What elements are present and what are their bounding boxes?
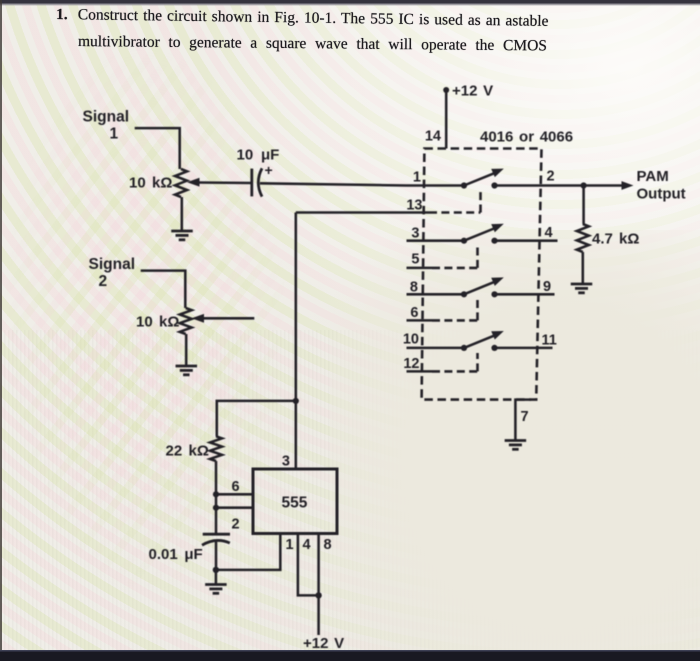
wire pin 7 stub — [515, 400, 531, 440]
wire stub to 555 pin 2 — [216, 506, 253, 509]
ground below R1 — [171, 231, 193, 240]
label Signal 2 — [89, 256, 136, 290]
ground at pin 7 — [505, 441, 527, 450]
svg-text:8: 8 — [410, 279, 418, 295]
svg-text:2: 2 — [232, 517, 240, 533]
svg-text:11: 11 — [542, 333, 557, 349]
ground below R3 — [571, 284, 593, 293]
resistor R2 10k — [180, 308, 192, 334]
wire junction down to R3 — [582, 186, 585, 225]
svg-text:22 kΩ: 22 kΩ — [166, 443, 209, 460]
arrow tap into R1 — [187, 178, 252, 187]
resistor R1 10k — [175, 169, 187, 197]
node pin 6 junction — [213, 491, 219, 497]
wire pin 9 stub out of box — [495, 293, 555, 296]
node junction riser / R4 branch — [293, 398, 299, 404]
svg-text:10: 10 — [403, 332, 419, 348]
wire 555 pin 4 down — [298, 534, 319, 596]
svg-text:Signal: Signal — [89, 256, 136, 273]
capacitor C2 curved plate — [202, 540, 230, 545]
node PAM output junction — [581, 182, 587, 188]
svg-text:4.7 kΩ: 4.7 kΩ — [592, 231, 639, 248]
resistor R3 4.7k — [577, 224, 589, 252]
node +12V (top supply) — [443, 83, 493, 100]
svg-text:0.01 μF: 0.01 μF — [149, 546, 203, 563]
svg-text:3: 3 — [411, 226, 419, 242]
wire R2 to ground — [185, 334, 188, 365]
svg-text:4: 4 — [303, 537, 311, 553]
wire junction to R4 branch — [217, 401, 296, 436]
svg-text:2: 2 — [547, 169, 555, 185]
wire pin 1 lead into box — [407, 184, 465, 187]
svg-text:10 μF: 10 μF — [237, 147, 280, 164]
wire pin 11 stub out of box — [495, 347, 553, 350]
IC U2 4016/4066 dashed outline — [422, 149, 542, 400]
dashed control net pin12 to S4 — [432, 353, 478, 371]
wire pin 4 stub out of box — [495, 239, 558, 242]
arrow tap into R2 — [192, 314, 255, 323]
analog switch S1 right contact dot — [491, 182, 497, 188]
wire node to 555 pin 1 — [216, 534, 280, 570]
svg-text:14: 14 — [425, 129, 441, 145]
analog switch S3 right contact dot — [491, 291, 497, 297]
ground below R2 — [176, 366, 198, 375]
wire pin 5 control stub — [407, 267, 433, 270]
svg-text:+12 V: +12 V — [452, 83, 493, 100]
svg-text:Output: Output — [637, 186, 686, 203]
analog switch S3 lever arm with arrowhead — [464, 277, 504, 294]
svg-text:5: 5 — [411, 252, 419, 268]
svg-text:+: + — [265, 162, 273, 178]
svg-text:4: 4 — [545, 225, 553, 241]
resistor R4 22k — [210, 436, 222, 461]
label Signal 1 — [83, 109, 130, 143]
node pins 4-8 junction — [315, 592, 321, 598]
dashed control net pin13 to S1 — [429, 190, 481, 213]
analog switch S4 right contact dot — [491, 345, 497, 351]
svg-text:PAM: PAM — [637, 168, 669, 185]
svg-text:1: 1 — [413, 170, 421, 186]
node ground junction — [213, 567, 219, 573]
wire C2 to ground node — [215, 542, 218, 570]
analog switch S4 lever arm with arrowhead — [464, 331, 504, 348]
capacitor C1 flat plate — [250, 169, 253, 197]
svg-text:1: 1 — [110, 126, 119, 143]
svg-text:9: 9 — [543, 279, 551, 295]
analog switch S4 (left contact dot) — [461, 345, 467, 351]
svg-text:2: 2 — [99, 273, 108, 290]
svg-text:13: 13 — [406, 198, 422, 214]
wire pin 13 control line — [296, 211, 429, 214]
wire R1 to ground — [181, 197, 184, 230]
analog switch S2 lever arm with arrowhead — [464, 224, 504, 241]
wire pin 6 control stub — [407, 319, 433, 322]
svg-text:1: 1 — [286, 537, 294, 553]
wire pin 3 lead into box — [407, 239, 465, 242]
svg-text:7: 7 — [521, 409, 529, 425]
svg-text:10 kΩ: 10 kΩ — [136, 314, 179, 331]
analog switch S1 lever arm with arrowhead — [464, 169, 504, 186]
ground below C2 — [205, 585, 227, 594]
svg-text:6: 6 — [232, 479, 240, 495]
wire Signal 2 input — [141, 271, 186, 308]
wire node to ground — [215, 570, 218, 584]
svg-text:12: 12 — [403, 356, 419, 372]
wire Signal 1 input — [135, 128, 180, 169]
wire R4 down to pin6 node — [215, 461, 218, 534]
svg-text:3: 3 — [282, 454, 290, 470]
analog switch S3 (left contact dot) — [461, 291, 467, 297]
svg-text:555: 555 — [282, 495, 308, 512]
wire 555 pin 8 down — [317, 534, 320, 596]
capacitor C2 0.01uF flat plate — [203, 533, 230, 536]
analog switch S2 (left contact dot) — [461, 238, 467, 244]
wire +12V to pin 14 — [445, 90, 448, 149]
IC U1 555 timer box — [253, 469, 337, 534]
wire to +12V bottom — [317, 595, 320, 635]
wire pin 10 lead into box — [407, 347, 465, 350]
dashed control net pin6 to S3 — [432, 300, 478, 321]
analog switch S2 right contact dot — [491, 238, 497, 244]
svg-text:Signal: Signal — [83, 109, 130, 126]
analog switch S1 (left contact dot) — [461, 182, 467, 188]
svg-text:8: 8 — [324, 537, 332, 553]
label PAM Output — [637, 168, 686, 203]
svg-text:6: 6 — [410, 305, 418, 321]
wire pin 8 lead into box — [407, 293, 465, 296]
wire R3 to ground — [582, 252, 585, 283]
wire to PAM output with arrowhead — [584, 181, 634, 190]
wire stub to 555 pin 6 — [216, 493, 253, 496]
heading paragraph — [56, 7, 549, 29]
svg-text:10 kΩ: 10 kΩ — [129, 175, 172, 192]
svg-text:4016 or 4066: 4016 or 4066 — [480, 129, 573, 146]
wire pin 3 riser (long vertical) — [295, 213, 298, 470]
node pin 2 junction — [213, 505, 219, 511]
wire pin 2 out to PAM junction — [495, 184, 584, 187]
wire pin 12 control stub — [407, 370, 433, 373]
dashed control net pin5 to S2 — [432, 246, 478, 268]
wire C1 to pin 1 — [260, 183, 407, 185]
capacitor C1 curved plate — [258, 168, 262, 196]
